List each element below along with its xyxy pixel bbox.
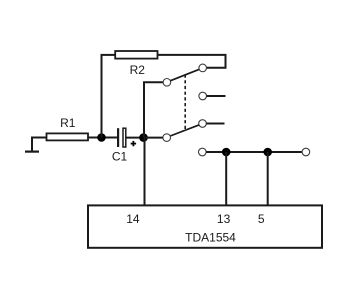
wire ground to R1	[31, 137, 47, 139]
wire node B up to switch pole 1	[143, 82, 145, 138]
switch S1 lever 1	[171, 69, 200, 80]
wire throw 1 lead	[207, 67, 227, 69]
wire node D to pin 5	[267, 152, 269, 205]
node C junction (pin 13)	[222, 148, 231, 157]
wire node A up to R2	[101, 55, 103, 138]
svg-text:13: 13	[217, 212, 231, 226]
svg-text:5: 5	[258, 212, 265, 226]
switch S1 throw 4 contact	[199, 148, 207, 156]
wire node C to pin 13	[225, 152, 227, 205]
svg-text:R2: R2	[130, 63, 146, 77]
wire C1 to node B	[126, 137, 144, 139]
wire node B to pole 2	[144, 137, 163, 139]
switch S1 throw 2 contact	[199, 92, 207, 100]
switch S1 pole 2 contact	[163, 134, 171, 142]
ground	[25, 137, 39, 152]
node B junction	[139, 133, 148, 142]
resistor R2	[115, 51, 157, 59]
svg-text:14: 14	[126, 212, 140, 226]
switch S1 throw 1 contact	[199, 64, 207, 72]
resistor R1	[47, 133, 89, 140]
wire R2 left lead	[101, 54, 116, 56]
wire pole 1 feed	[143, 81, 163, 83]
switch S1 lever 2	[170, 125, 199, 136]
wire node B to pin 14	[144, 138, 146, 206]
IC U1 TDA1554 body	[88, 205, 322, 247]
wire throw 2 lead	[207, 95, 226, 97]
svg-text:TDA1554: TDA1554	[185, 231, 236, 245]
capacitor C1	[118, 128, 136, 147]
wire R1 to C1	[88, 137, 118, 139]
svg-text:R1: R1	[60, 116, 76, 130]
node D junction (pin 5)	[263, 148, 272, 157]
wire throw 4 to output terminal	[206, 151, 302, 153]
wire R2 right lead	[158, 54, 227, 56]
switch S1 pole 1 contact	[163, 79, 171, 87]
wire throw 3 lead	[206, 123, 224, 125]
node A junction	[97, 133, 106, 142]
switch S1 throw 3 contact	[199, 120, 207, 128]
svg-text:C1: C1	[112, 150, 128, 164]
switch S1 mechanical link (dashed)	[184, 75, 186, 131]
output terminal	[302, 148, 310, 156]
wire down to switch throw 1	[225, 54, 227, 68]
